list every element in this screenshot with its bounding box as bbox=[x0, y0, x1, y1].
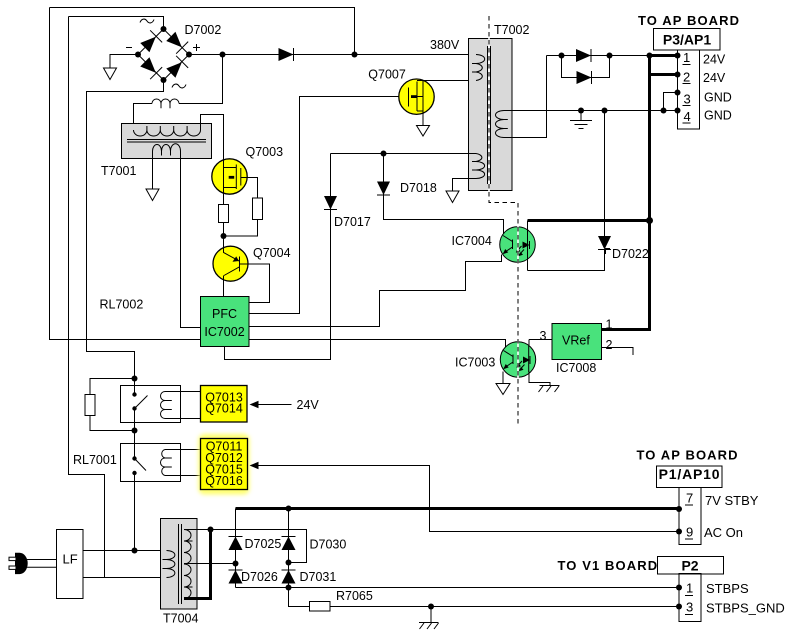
pin number 7 bbox=[685, 491, 693, 506]
svg-text:GND: GND bbox=[704, 91, 732, 105]
svg-text:2: 2 bbox=[683, 70, 690, 85]
diode D7022 bbox=[598, 236, 611, 250]
node relay top junction bbox=[132, 376, 138, 382]
svg-text:STBPS_GND: STBPS_GND bbox=[706, 601, 785, 616]
wire D7022 to IC7004 bbox=[528, 249, 605, 271]
svg-text:Q7014: Q7014 bbox=[205, 402, 243, 416]
ground T7002 aux bbox=[446, 191, 459, 203]
label IC7008 bbox=[556, 361, 596, 375]
wire T7004 middle tap bbox=[184, 563, 236, 565]
node P2 pin1 bbox=[676, 585, 682, 591]
wire Q7007 drain to T7002 bbox=[423, 80, 476, 82]
connector P2 title box bbox=[658, 557, 724, 575]
transformer T7002 body bbox=[469, 39, 513, 191]
wire aux winding top rail bbox=[331, 153, 477, 155]
pin number 1 P2 bbox=[685, 581, 693, 596]
wire relay resistor top bbox=[90, 379, 135, 395]
T7004 secondary winding bbox=[184, 530, 193, 599]
svg-text:3: 3 bbox=[686, 600, 693, 615]
node D7030 mid bbox=[286, 560, 292, 566]
svg-text:2: 2 bbox=[606, 338, 613, 352]
label Q7007 bbox=[368, 68, 406, 82]
diode D7002 top-right bbox=[165, 30, 188, 53]
relay coil 1 bbox=[161, 392, 172, 419]
wire choke to T7001 bbox=[134, 104, 153, 131]
label GND pin4 bbox=[704, 109, 732, 123]
node bridge bottom bbox=[161, 77, 167, 83]
svg-text:VRef: VRef bbox=[562, 334, 590, 348]
wire resistor to node bbox=[223, 223, 225, 247]
node D7018 branch bbox=[381, 151, 387, 157]
label D7030 bbox=[310, 538, 347, 552]
label D7031 bbox=[300, 570, 337, 584]
wire top outer rail bbox=[50, 8, 355, 55]
T7002 secondary winding 24V bbox=[496, 111, 508, 138]
svg-text:24V: 24V bbox=[297, 398, 320, 412]
wire GND winding row bbox=[504, 110, 678, 112]
svg-text:PFC: PFC bbox=[212, 307, 237, 321]
label D7017 bbox=[334, 215, 371, 229]
wire T7001 secondary left to ground bbox=[152, 151, 154, 189]
ground hatched IC7008 bbox=[539, 386, 560, 393]
svg-text:3: 3 bbox=[684, 92, 691, 107]
pin number 4 bbox=[683, 109, 691, 124]
label Q7004 bbox=[253, 246, 291, 260]
diode D7002 top-left bbox=[139, 30, 162, 53]
label minus bbox=[126, 47, 132, 49]
wire Q7003 gate branch bbox=[241, 178, 258, 199]
label D7022 bbox=[606, 247, 649, 261]
wire T7002 aux bottom to ground bbox=[453, 179, 477, 192]
wire T7001 secondary right to PFC bbox=[181, 151, 201, 328]
diode D7031 bbox=[282, 570, 296, 584]
node P3 pin2 bbox=[675, 72, 681, 78]
node Q7003-Q7004 bbox=[221, 233, 227, 239]
dashed isolation line bbox=[489, 16, 518, 424]
diode D7002 bottom-left bbox=[139, 56, 162, 79]
wire 7V STBY thick rail bbox=[236, 507, 678, 510]
wire T7001 primary right to Q7003 drain bbox=[201, 115, 224, 160]
wire 24V arrow bbox=[250, 401, 292, 408]
ground earth GND bbox=[570, 121, 592, 129]
wire STBPS_GND bbox=[330, 606, 678, 608]
T7002 aux winding bbox=[472, 154, 485, 179]
wire between relays bbox=[134, 431, 136, 459]
label pin 2 bbox=[606, 338, 613, 352]
svg-text:IC7008: IC7008 bbox=[556, 361, 596, 375]
svg-text:IC7002: IC7002 bbox=[204, 325, 244, 339]
resistor relay RL7002 bbox=[85, 395, 95, 416]
node junction top rail bbox=[352, 52, 358, 58]
transistor Q7004 bbox=[213, 246, 248, 296]
node D7022 branch bbox=[602, 108, 608, 114]
svg-text:D7018: D7018 bbox=[400, 181, 437, 195]
node ground branch bbox=[428, 604, 434, 610]
wire secondary bottom riser bbox=[504, 56, 547, 138]
svg-text:TO AP BOARD: TO AP BOARD bbox=[637, 448, 739, 463]
label TO AP BOARD top bbox=[638, 13, 740, 28]
node middle tap bbox=[233, 561, 239, 567]
relay contact 2 bbox=[132, 456, 146, 550]
wire bridge bottom to left rail bbox=[87, 80, 164, 379]
T7001 core lines bbox=[127, 140, 206, 143]
svg-text:D7022: D7022 bbox=[612, 247, 649, 261]
relay contact 1 bbox=[132, 379, 147, 431]
label T7002 bbox=[494, 23, 529, 37]
svg-text:3: 3 bbox=[540, 329, 547, 343]
label D7025 bbox=[245, 537, 282, 551]
wire second left rail to LF bbox=[69, 17, 105, 578]
svg-text:7: 7 bbox=[686, 491, 693, 506]
wire coil1 to Q7013 top bbox=[165, 391, 201, 393]
label T7004 bbox=[163, 612, 198, 626]
T7001 primary winding bbox=[134, 126, 201, 136]
node P3 pin3 bbox=[675, 90, 681, 96]
node bridge left bbox=[135, 52, 141, 58]
svg-text:Q7007: Q7007 bbox=[368, 68, 406, 82]
wire output diode lower branch bbox=[562, 56, 610, 78]
connector P2 body bbox=[679, 574, 701, 622]
node STBPS D7031 bbox=[286, 585, 292, 591]
svg-text:24V: 24V bbox=[703, 53, 726, 67]
svg-text:D7002: D7002 bbox=[185, 23, 222, 37]
wire thick 24V to IC7004 bbox=[528, 219, 651, 222]
node junction main bus bbox=[220, 52, 226, 58]
svg-text:AC On: AC On bbox=[704, 525, 743, 540]
label IC7004 bbox=[452, 234, 492, 248]
svg-text:LF: LF bbox=[63, 552, 78, 567]
label 24V relay bbox=[297, 398, 320, 412]
connector P1/AP10 body bbox=[679, 488, 701, 545]
diode D7025 bbox=[229, 537, 243, 551]
svg-text:T7002: T7002 bbox=[494, 23, 529, 37]
T7004 primary winding bbox=[163, 551, 175, 578]
label TO V1 BOARD bbox=[558, 558, 659, 573]
wire VRef pin2 bbox=[602, 348, 634, 356]
svg-text:TO V1 BOARD: TO V1 BOARD bbox=[558, 558, 659, 573]
line filter LF box bbox=[57, 530, 84, 599]
label AC On bbox=[704, 525, 743, 540]
relay RL7001 contact box bbox=[121, 444, 181, 482]
wire 24V thick rail down bbox=[648, 56, 651, 332]
diode main bus rectifier bbox=[279, 48, 294, 61]
wire T7004 top pin bbox=[184, 530, 307, 563]
svg-text:380V: 380V bbox=[430, 38, 460, 52]
transformer T7001 body bbox=[122, 124, 212, 159]
transistor box Q7011 glow bbox=[199, 434, 250, 495]
node P1 pin9 bbox=[676, 529, 682, 535]
wire coil2 to Q7011 bottom bbox=[165, 475, 201, 477]
svg-text:GND: GND bbox=[704, 109, 732, 123]
svg-text:STBPS: STBPS bbox=[706, 581, 749, 596]
label RL7002 bbox=[100, 298, 144, 312]
diode D7026 bbox=[229, 570, 243, 584]
pin number 1 bbox=[683, 50, 691, 65]
label pin 3 bbox=[540, 329, 547, 343]
T7004 core lines bbox=[179, 524, 182, 604]
node P1 pin7 bbox=[676, 506, 682, 512]
label STBPS bbox=[706, 581, 749, 596]
wire LF bottom to T7004 bbox=[83, 577, 167, 579]
optocoupler IC7003 bbox=[500, 340, 550, 386]
node rail right bbox=[607, 53, 613, 59]
connector P3/AP1 title box bbox=[654, 29, 721, 51]
svg-text:D7031: D7031 bbox=[300, 570, 337, 584]
svg-text:RL7002: RL7002 bbox=[100, 298, 144, 312]
node P2 pin3 bbox=[676, 604, 682, 610]
optocoupler IC7004 bbox=[500, 221, 536, 271]
wire choke branch bbox=[179, 55, 223, 104]
svg-text:P1/AP10: P1/AP10 bbox=[659, 466, 721, 482]
IC chip VRef IC7008 bbox=[552, 324, 602, 360]
svg-text:Q7004: Q7004 bbox=[253, 246, 291, 260]
wire P3 pin2 thick bbox=[648, 73, 678, 76]
diode D7018 bbox=[377, 182, 390, 196]
node P3 pin1 bbox=[675, 53, 681, 59]
wire coil2 to Q7011 top bbox=[165, 449, 201, 451]
wire diode branch left bbox=[235, 509, 237, 588]
svg-text:1: 1 bbox=[606, 318, 613, 332]
wire LF top to T7004 bbox=[83, 550, 167, 552]
T7002 core lines bbox=[488, 46, 491, 184]
diode D7002 bottom-right bbox=[165, 56, 188, 79]
svg-text:T7001: T7001 bbox=[101, 164, 136, 178]
ground hatched bottom bbox=[419, 623, 439, 630]
wire output diode rail bbox=[547, 55, 678, 57]
diode D7017 bbox=[324, 196, 337, 210]
relay coil 2 bbox=[161, 450, 172, 476]
svg-text:D7017: D7017 bbox=[334, 215, 371, 229]
svg-text:D7030: D7030 bbox=[310, 538, 347, 552]
wire bridge left to ground bbox=[110, 55, 138, 69]
transistor Q7003 bbox=[212, 159, 247, 205]
transistor Q7007 bbox=[399, 79, 434, 126]
label TO AP BOARD bottom bbox=[637, 448, 739, 463]
relay RL7002 contact box bbox=[121, 386, 181, 423]
wire plug to LF bbox=[27, 560, 58, 568]
wire PFC right to Q7007 gate bbox=[249, 97, 409, 314]
transformer T7004 body bbox=[161, 519, 198, 610]
svg-text:TO AP BOARD: TO AP BOARD bbox=[638, 13, 740, 28]
wire VRef pin1 thick bbox=[602, 328, 652, 331]
resistor R7065 bbox=[310, 602, 331, 612]
resistor Q7003 source bbox=[219, 205, 229, 223]
label 7V STBY bbox=[705, 493, 759, 508]
label pin 1 bbox=[606, 318, 613, 332]
node bridge top bbox=[161, 26, 167, 32]
wire PFC bottom to D7017 bbox=[225, 154, 331, 360]
label 380V bbox=[430, 38, 460, 52]
ground T7001 bbox=[146, 189, 159, 201]
pin number 9 bbox=[685, 525, 693, 540]
wire main DC bus 380V bbox=[188, 54, 476, 56]
label T7001 bbox=[101, 164, 136, 178]
wire P3 pin3 jog bbox=[664, 93, 678, 111]
node thick junction bbox=[646, 217, 653, 224]
AC plug bbox=[9, 553, 28, 574]
diode D7030 bbox=[282, 537, 296, 551]
wire D7022 branch bbox=[604, 111, 606, 237]
transistor box Q7011 Q7012 Q7015 Q7016 bbox=[201, 439, 248, 490]
label R7065 bbox=[336, 589, 373, 603]
svg-text:Q7016: Q7016 bbox=[205, 474, 243, 488]
svg-text:24V: 24V bbox=[703, 71, 726, 85]
wire PFC to IC7003 bbox=[249, 340, 506, 348]
node GND stub bbox=[578, 108, 584, 114]
node T7004 top bbox=[208, 527, 214, 533]
ground IC7003 bbox=[496, 384, 510, 395]
T7002 primary winding bbox=[472, 55, 485, 81]
label 24V pin2 bbox=[703, 71, 726, 85]
node rail thick bbox=[647, 53, 653, 59]
ground bridge left bbox=[104, 68, 117, 80]
svg-text:Q7003: Q7003 bbox=[246, 145, 284, 159]
wire gate resistor to node bbox=[224, 220, 258, 237]
label IC7003 bbox=[455, 356, 495, 370]
svg-text:RL7001: RL7001 bbox=[73, 453, 117, 467]
svg-text:IC7004: IC7004 bbox=[452, 234, 492, 248]
svg-text:7V STBY: 7V STBY bbox=[705, 493, 759, 508]
label 24V pin1 bbox=[703, 53, 726, 67]
label D7002 bbox=[185, 23, 222, 37]
node rail left bbox=[559, 53, 565, 59]
node LF relay junction bbox=[132, 548, 138, 554]
label AC tilde top bbox=[140, 19, 154, 23]
wire D7018 branch bbox=[383, 154, 385, 183]
svg-text:R7065: R7065 bbox=[336, 589, 373, 603]
wire second top rail bbox=[69, 17, 164, 30]
resistor Q7003 gate bbox=[253, 198, 263, 220]
inductor choke bbox=[152, 99, 179, 108]
label STBPS_GND bbox=[706, 601, 785, 616]
node 7V rail D7030 bbox=[286, 506, 292, 512]
pin number 3 P2 bbox=[685, 600, 693, 615]
node bridge right bbox=[186, 52, 192, 58]
wire diode branch right bbox=[288, 509, 290, 607]
wire coil1 to Q7013 bottom bbox=[165, 418, 201, 420]
diode output bottom bbox=[577, 71, 592, 84]
wire left outer rail to PFC bbox=[50, 8, 201, 340]
svg-text:D7026: D7026 bbox=[241, 570, 278, 584]
bridge rectifier D7002 diamond bbox=[138, 29, 189, 80]
label D7026 bbox=[241, 570, 278, 584]
label AC tilde bottom bbox=[172, 84, 186, 88]
ground Q7007 bbox=[417, 126, 430, 137]
label RL7001 bbox=[73, 453, 117, 467]
wire R7065 branch bbox=[289, 588, 311, 607]
T7001 secondary winding bbox=[153, 144, 181, 156]
svg-text:IC7003: IC7003 bbox=[455, 356, 495, 370]
wire GND earth stub bbox=[580, 111, 582, 121]
wire AC On arrow line bbox=[250, 462, 678, 532]
svg-text:4: 4 bbox=[684, 109, 691, 124]
svg-text:D7025: D7025 bbox=[245, 537, 282, 551]
pin number 2 bbox=[683, 70, 691, 85]
diode output top bbox=[576, 49, 591, 62]
node P3 pin3 jog bottom bbox=[661, 108, 667, 114]
wire P3 pin1 thick bbox=[648, 54, 678, 57]
wire T7004 bottom thick riser bbox=[184, 530, 211, 601]
connector P3/AP1 body bbox=[678, 50, 700, 129]
wire D7018 to IC7004 bbox=[384, 194, 504, 234]
wire Q7004 base to PFC bbox=[240, 264, 270, 303]
pin number 3 bbox=[683, 92, 691, 107]
svg-text:1: 1 bbox=[686, 581, 693, 596]
svg-text:1: 1 bbox=[683, 50, 690, 65]
svg-text:P2: P2 bbox=[681, 558, 698, 574]
svg-text:9: 9 bbox=[686, 525, 693, 540]
transistor box Q7013 Q7014 bbox=[201, 386, 248, 423]
wire ground stub bottom bbox=[430, 607, 432, 623]
IC chip PFC IC7002 bbox=[201, 297, 250, 347]
node P3 pin4 bbox=[675, 108, 681, 114]
wire STBPS rail bbox=[236, 587, 678, 589]
svg-text:T7004: T7004 bbox=[163, 612, 198, 626]
connector P1/AP10 title box bbox=[657, 466, 723, 488]
label GND pin3 bbox=[704, 91, 732, 105]
svg-text:P3/AP1: P3/AP1 bbox=[663, 32, 711, 48]
label D7018 bbox=[400, 181, 437, 195]
label plus bbox=[193, 44, 200, 51]
wire relay resistor bottom bbox=[90, 416, 135, 431]
node between relays bbox=[132, 428, 138, 434]
wire IC7004 to PFC staircase bbox=[249, 255, 502, 327]
label Q7003 bbox=[246, 145, 284, 159]
wire IC7003 pin3 bbox=[529, 339, 552, 341]
